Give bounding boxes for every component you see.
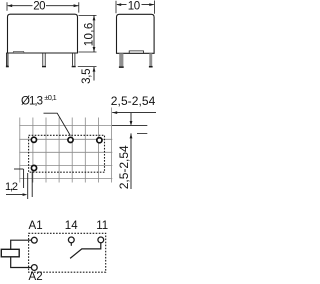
relay body front view [8,14,78,53]
relay box dashed [29,233,106,272]
dimension 10.6 arrows [93,15,96,52]
hole pin A2 [31,165,36,170]
front middle pin cap [42,66,46,68]
contact: stub under 14 [70,243,72,246]
dimension 10 arrows [116,3,154,6]
terminal 14 [68,237,74,243]
leader line for hole diameter [44,113,71,135]
front left pin cap [6,66,9,68]
svg-text:2,5-2,54: 2,5-2,54 [117,145,131,189]
terminal 11 [98,237,104,243]
side right pin cap [149,66,153,68]
coil [1,240,101,267]
side bottom notch [129,51,143,53]
svg-text:10,6: 10,6 [84,23,96,47]
front bottom notch [13,51,24,53]
side left pin cap [119,66,124,68]
coil rectangle [1,249,19,256]
svg-text:1,2: 1,2 [5,181,18,193]
front right pin cap [72,66,76,68]
dimension 3.5 arrow + tail [93,67,95,81]
relay body side view [117,14,155,53]
front left pin [6,53,8,66]
dimension 2,5-2,54 horizontal [112,113,156,189]
terminal A2 [31,265,37,271]
dimension 20 extension lines [7,2,79,12]
contact: 11 lead and blade [70,243,101,259]
svg-text:20: 20 [33,1,45,13]
svg-text:10: 10 [128,1,140,13]
front right pin [73,53,75,66]
relay outline bottom view (dashed) [29,135,105,172]
dimension 10 line [117,4,154,6]
hole pin 14 [68,137,73,142]
svg-text:14: 14 [65,220,78,232]
dimension 10.6 extension lines [78,15,97,66]
dimension 20 line [8,5,79,7]
side left pin [119,53,123,66]
wire coil to A2 [11,257,32,268]
dimension 10.6 line [93,15,95,52]
dimension 10 extension lines [116,1,154,14]
pcb grid [19,108,147,183]
terminal A1 [31,237,37,243]
side right pin [149,53,152,66]
wire A1 to coil [11,240,32,249]
front middle pin [43,53,45,66]
svg-text:A2: A2 [29,271,43,283]
svg-text:±0,1: ±0,1 [44,93,56,102]
svg-text:11: 11 [96,220,108,232]
svg-text:2,5-2,54: 2,5-2,54 [111,94,156,108]
svg-text:Ø1,3: Ø1,3 [21,95,43,107]
hole pin 11 [97,138,102,143]
hole pin A1 [31,137,36,142]
dimension 1,2 [6,169,32,199]
svg-text:3,5: 3,5 [81,69,93,84]
dimension 20 arrows [7,4,78,7]
vertical dim arrows [130,121,133,126]
svg-text:A1: A1 [29,220,43,232]
